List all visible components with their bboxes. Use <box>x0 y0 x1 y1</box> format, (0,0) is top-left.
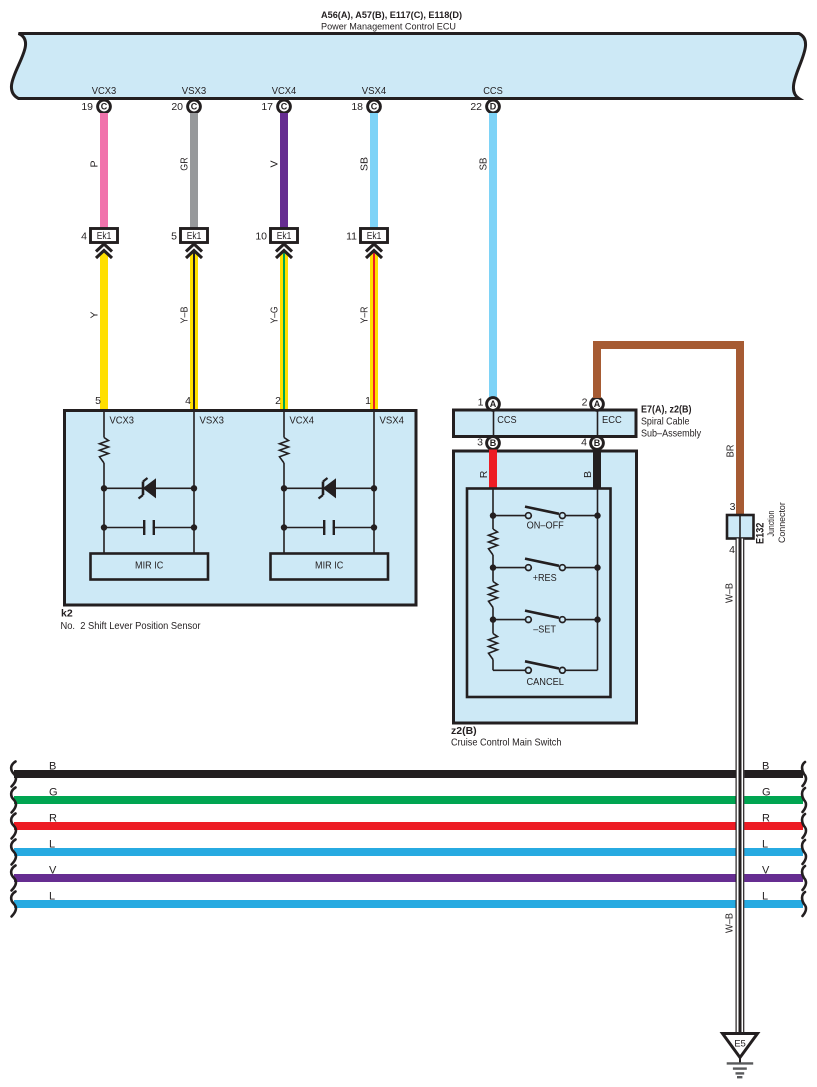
svg-text:Ek1: Ek1 <box>187 230 202 242</box>
svg-text:MIR IC: MIR IC <box>315 560 344 572</box>
svg-text:Y–R: Y–R <box>359 306 371 323</box>
svg-text:B: B <box>762 760 769 772</box>
svg-text:L: L <box>49 890 55 902</box>
svg-text:CCS: CCS <box>483 85 503 97</box>
svg-text:17: 17 <box>261 101 273 113</box>
switch +RES <box>490 559 601 584</box>
svg-text:VSX3: VSX3 <box>182 85 207 97</box>
svg-text:4: 4 <box>729 544 735 556</box>
svg-text:k2: k2 <box>61 608 73 620</box>
capacitor between VCX4 and VSX4 <box>281 520 377 535</box>
svg-text:E5: E5 <box>734 1039 746 1050</box>
svg-text:A56(A), A57(B), E117(C), E118(: A56(A), A57(B), E117(C), E118(D) <box>321 10 462 21</box>
resistor between +RES and -SET <box>489 582 498 634</box>
switch CANCEL <box>493 661 598 688</box>
svg-text:5: 5 <box>171 231 177 243</box>
svg-text:B: B <box>594 438 601 448</box>
wire Y from Ek1 to k2 pin 5 <box>89 252 108 411</box>
wire V from ECU to Ek1 <box>269 113 288 229</box>
svg-text:SB: SB <box>478 158 490 171</box>
svg-text:C: C <box>101 102 108 112</box>
svg-text:P: P <box>89 160 101 167</box>
right bus line in switch <box>597 489 599 671</box>
svg-text:V: V <box>762 864 770 876</box>
svg-text:L: L <box>762 838 768 850</box>
svg-text:V: V <box>269 160 281 167</box>
wire GR from ECU to Ek1 <box>179 113 198 229</box>
connector Ek1 pin 10 <box>255 229 297 243</box>
svg-text:No. 2 Shift Lever Position Se: No. 2 Shift Lever Position Sensor <box>61 620 201 632</box>
wire Y–R from Ek1 to k2 pin 1 <box>359 252 378 411</box>
ground E5 <box>723 1034 758 1078</box>
svg-text:E132: E132 <box>755 523 767 544</box>
svg-text:Y–B: Y–B <box>179 307 191 324</box>
resistor in k2 under VCX3 <box>100 438 109 554</box>
svg-text:VSX4: VSX4 <box>362 85 387 97</box>
svg-text:C: C <box>281 102 288 112</box>
svg-text:R: R <box>478 470 490 478</box>
svg-text:Cruise Control Main Switch: Cruise Control Main Switch <box>451 737 562 749</box>
svg-text:C: C <box>371 102 378 112</box>
junction connector E132 box <box>727 515 754 539</box>
zener diode between VCX3 and VSX3 <box>101 478 197 499</box>
svg-text:Y: Y <box>89 311 101 318</box>
svg-text:VCX4: VCX4 <box>272 85 297 97</box>
pin 18 (C) VSX4 on ECU <box>351 85 386 113</box>
svg-text:Ek1: Ek1 <box>277 230 292 242</box>
twisted pair shield symbol at Y <box>96 244 112 258</box>
k2 No.2 Shift Lever Position Sensor block <box>65 411 417 606</box>
svg-text:B: B <box>49 760 56 772</box>
bus wire G <box>11 786 806 812</box>
twisted pair shield symbol at Y–R <box>366 244 382 258</box>
k2 caption <box>61 608 201 633</box>
node VSX3 internal line <box>194 411 224 554</box>
svg-text:B: B <box>490 438 497 448</box>
z2(B) Cruise Control Main Switch outer box <box>454 451 637 723</box>
svg-text:Spiral Cable: Spiral Cable <box>641 416 690 428</box>
svg-text:L: L <box>49 838 55 850</box>
svg-text:R: R <box>49 812 57 824</box>
svg-text:ON–OFF: ON–OFF <box>527 520 564 532</box>
wire P from ECU to Ek1 <box>89 113 108 229</box>
bus wire L <box>11 890 806 916</box>
svg-text:GR: GR <box>179 157 191 171</box>
svg-text:3: 3 <box>477 437 483 449</box>
spiral cable sub-assembly E7(A)/z2(B) box <box>454 410 637 437</box>
svg-text:BR: BR <box>725 444 737 457</box>
svg-text:4: 4 <box>185 395 191 407</box>
bus wire R <box>11 812 806 838</box>
svg-text:W–B: W–B <box>725 583 736 603</box>
svg-text:SB: SB <box>359 157 371 171</box>
node VSX4 internal line <box>374 411 404 554</box>
svg-text:G: G <box>762 786 771 798</box>
svg-text:Ek1: Ek1 <box>367 230 382 242</box>
switch ON-OFF <box>490 507 601 532</box>
resistor between -SET and CANCEL <box>489 634 498 671</box>
svg-text:B: B <box>582 471 594 478</box>
svg-text:ECC: ECC <box>602 414 622 426</box>
wire BR from spiral cable pin 2 to E132 junction connector <box>597 345 740 515</box>
capacitor between VCX3 and VSX3 <box>101 520 197 535</box>
wire SB from ECU pin 22 to spiral cable pin 1 <box>478 113 497 398</box>
twisted pair shield symbol at Y–G <box>276 244 292 258</box>
svg-text:3: 3 <box>730 501 736 513</box>
switch inner box <box>467 489 611 698</box>
pin 2 (A) ECC of spiral cable <box>582 397 604 411</box>
svg-text:Sub–Assembly: Sub–Assembly <box>641 428 702 440</box>
svg-text:VCX3: VCX3 <box>92 85 117 97</box>
E132 pin 3 <box>730 501 736 513</box>
pin 1 (A) CCS of spiral cable <box>478 397 500 411</box>
MIR IC box under VCX3/VSX3 <box>91 554 209 580</box>
svg-text:22: 22 <box>470 101 482 113</box>
svg-text:V: V <box>49 864 57 876</box>
svg-text:Junction: Junction <box>766 511 777 537</box>
svg-text:R: R <box>762 812 770 824</box>
svg-text:–SET: –SET <box>533 624 556 636</box>
wire Y–G from Ek1 to k2 pin 2 <box>269 252 288 411</box>
z2(B) caption <box>451 725 562 749</box>
svg-text:MIR IC: MIR IC <box>135 560 164 572</box>
resistor in k2 under VCX4 <box>280 438 289 554</box>
pin 3 (B) of spiral cable <box>477 437 499 450</box>
connector Ek1 pin 11 <box>346 229 387 243</box>
switch -SET <box>490 611 601 636</box>
pin 19 (C) VCX3 on ECU <box>81 85 116 113</box>
bus wire L <box>11 838 806 864</box>
node VCX3 internal line <box>104 411 134 438</box>
svg-text:5: 5 <box>95 395 101 407</box>
E132 caption <box>755 502 788 544</box>
svg-text:C: C <box>191 102 198 112</box>
svg-text:CCS: CCS <box>497 414 516 426</box>
svg-text:VCX4: VCX4 <box>290 415 315 427</box>
wire R from pin 3 into switch <box>478 450 497 489</box>
connector Ek1 pin 5 <box>171 229 207 243</box>
svg-text:VSX3: VSX3 <box>200 415 225 427</box>
svg-text:Y–G: Y–G <box>269 307 281 324</box>
pin 4 (B) of spiral cable <box>581 437 603 450</box>
svg-text:E7(A), z2(B): E7(A), z2(B) <box>641 404 692 416</box>
svg-text:Ek1: Ek1 <box>97 230 112 242</box>
svg-text:1: 1 <box>478 397 484 409</box>
twisted pair shield symbol at Y–B <box>186 244 202 258</box>
svg-text:L: L <box>762 890 768 902</box>
svg-text:VSX4: VSX4 <box>380 415 405 427</box>
svg-text:CANCEL: CANCEL <box>526 676 564 688</box>
svg-text:2: 2 <box>275 395 281 407</box>
svg-text:A: A <box>490 399 497 409</box>
node VCX4 internal line <box>284 411 314 438</box>
bus wire B <box>11 760 806 786</box>
resistor between ON-OFF and +RES <box>489 529 498 582</box>
wire SB from ECU to Ek1 <box>359 113 378 229</box>
svg-text:W–B: W–B <box>725 913 736 933</box>
svg-text:+RES: +RES <box>533 572 557 584</box>
svg-text:Power Management Control ECU: Power Management Control ECU <box>321 21 456 32</box>
svg-text:D: D <box>490 102 497 112</box>
wire B from pin 4 into switch <box>582 450 601 489</box>
left bus line in switch <box>492 489 494 530</box>
E132 pin 4 <box>729 544 735 556</box>
bus wire V <box>11 864 806 890</box>
svg-text:A: A <box>594 399 601 409</box>
svg-text:19: 19 <box>81 101 93 113</box>
pin 22 (D) CCS on ECU <box>470 85 502 113</box>
svg-text:4: 4 <box>581 437 587 449</box>
wire Y–B from Ek1 to k2 pin 4 <box>179 252 198 411</box>
svg-text:20: 20 <box>171 101 183 113</box>
MIR IC box under VCX4/VSX4 <box>271 554 389 580</box>
svg-text:1: 1 <box>365 395 371 407</box>
svg-text:2: 2 <box>582 397 588 409</box>
connector Ek1 pin 4 <box>81 229 117 243</box>
svg-text:11: 11 <box>346 231 357 243</box>
svg-text:18: 18 <box>351 101 363 113</box>
ECU block A56/A57/E117/E118 Power Management Control ECU <box>11 34 805 99</box>
pin 17 (C) VCX4 on ECU <box>261 85 296 113</box>
zener diode between VCX4 and VSX4 <box>281 478 377 499</box>
svg-text:Connector: Connector <box>777 502 788 543</box>
svg-text:z2(B): z2(B) <box>451 725 477 737</box>
svg-text:10: 10 <box>255 231 267 243</box>
ECU title label <box>321 10 462 32</box>
pin 20 (C) VSX3 on ECU <box>171 85 206 113</box>
svg-text:VCX3: VCX3 <box>110 415 135 427</box>
wire W-B from E132 to ground E5 <box>725 539 745 1034</box>
svg-text:G: G <box>49 786 58 798</box>
spiral cable caption <box>641 404 702 440</box>
svg-text:4: 4 <box>81 231 87 243</box>
